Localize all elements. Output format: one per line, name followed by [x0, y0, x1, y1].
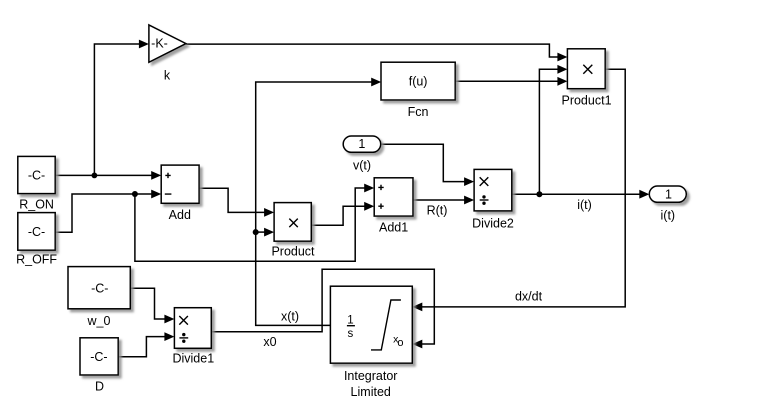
- svg-text:x(t): x(t): [281, 309, 299, 323]
- svg-text:Divide1: Divide1: [172, 352, 214, 366]
- svg-text:1: 1: [665, 187, 672, 201]
- svg-text:i(t): i(t): [661, 209, 676, 223]
- svg-text:Fcn: Fcn: [408, 105, 429, 119]
- svg-text:i(t): i(t): [577, 198, 592, 212]
- svg-text:Product: Product: [271, 245, 315, 259]
- svg-text:k: k: [164, 69, 171, 83]
- svg-text:Limited: Limited: [351, 385, 391, 399]
- svg-text:-C-: -C-: [91, 282, 108, 296]
- svg-text:R(t): R(t): [427, 204, 448, 218]
- svg-text:Add: Add: [169, 208, 191, 222]
- svg-text:f(u): f(u): [409, 75, 428, 89]
- svg-text:v(t): v(t): [353, 159, 371, 173]
- svg-text:Product1: Product1: [561, 93, 611, 107]
- svg-text:-C-: -C-: [28, 225, 45, 239]
- svg-text:-C-: -C-: [90, 350, 107, 364]
- svg-text:Integrator: Integrator: [344, 369, 398, 383]
- svg-text:dx/dt: dx/dt: [515, 290, 543, 304]
- svg-text:D: D: [95, 380, 104, 394]
- svg-text:Divide2: Divide2: [472, 217, 514, 231]
- svg-text:-K-: -K-: [151, 36, 168, 50]
- svg-text:Add1: Add1: [379, 221, 408, 235]
- svg-text:s: s: [348, 328, 354, 340]
- svg-text:1: 1: [358, 137, 365, 151]
- svg-text:R_OFF: R_OFF: [16, 252, 57, 266]
- svg-text:w_0: w_0: [87, 314, 111, 328]
- svg-text:-C-: -C-: [28, 169, 45, 183]
- svg-text:o: o: [397, 337, 403, 349]
- svg-text:1: 1: [347, 315, 353, 327]
- svg-text:R_ON: R_ON: [19, 197, 54, 211]
- svg-text:x0: x0: [263, 335, 276, 349]
